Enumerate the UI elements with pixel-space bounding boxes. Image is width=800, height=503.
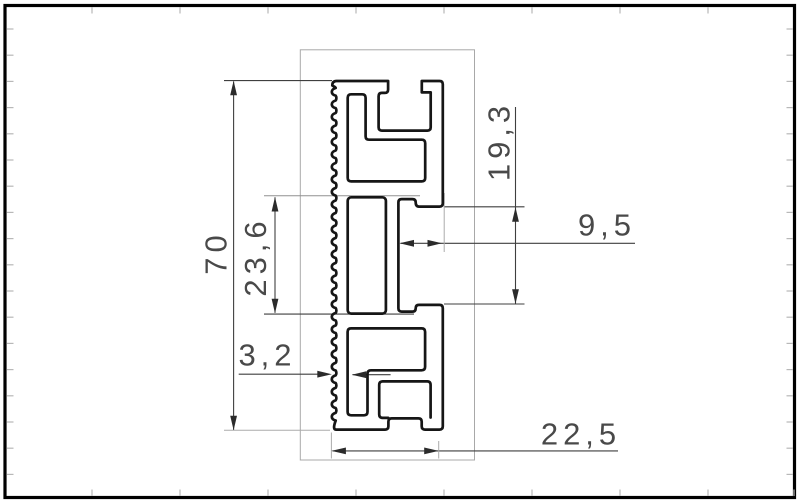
arrow 23,6 down (272, 299, 279, 314)
dim 22,5 extension lines (light) (330, 433, 332, 459)
svg-text:70: 70 (198, 230, 233, 274)
arrow 23,6 up (272, 197, 279, 212)
dim 22,5 line (333, 450, 619, 452)
arrow 70 up (230, 81, 237, 96)
arrow 22,5 left (331, 448, 346, 455)
dim 23,6 line (274, 197, 276, 312)
dim 3,2 right line (353, 374, 391, 376)
arrow 9,5 right (428, 240, 443, 247)
arrow 19,3 up (512, 207, 519, 222)
outer contour: cap right end, T-slot, hook, right wall, middle steps, bottom feet, wavy left (332, 81, 443, 430)
dim 70 extension line top (224, 80, 332, 82)
bottom window cavity (379, 381, 430, 418)
dim 9,5 line (401, 242, 636, 244)
viewport rectangle (300, 50, 474, 460)
svg-text:19,3: 19,3 (482, 101, 517, 181)
arrow 22,5 right (424, 448, 439, 455)
arrow 70 down (230, 416, 237, 431)
dim 3,2 left line (239, 373, 319, 375)
lower L-shaped cavity (348, 328, 426, 415)
arrow 3,2 left-pointing (352, 371, 367, 378)
dim 23,6 extension line top (264, 195, 420, 197)
dim 70 line (233, 82, 235, 431)
dim 23,6 extension line bottom (264, 313, 414, 315)
top L-shaped cavity (348, 94, 426, 181)
dim 19,3 line (515, 107, 517, 304)
svg-text:3,2: 3,2 (238, 337, 296, 372)
arrow 19,3 down (512, 289, 519, 304)
central cavity rectangle (348, 197, 386, 313)
dim 19,3 extension line top (444, 206, 525, 208)
svg-text:23,6: 23,6 (238, 216, 273, 296)
arrow 3,2 right-pointing (317, 371, 332, 378)
dim 9,5 extension line right (light) (443, 193, 445, 252)
svg-text:9,5: 9,5 (578, 208, 636, 243)
svg-text:22,5: 22,5 (541, 416, 621, 451)
dim 70 extension line bottom (light) (224, 429, 330, 431)
arrow 9,5 left (400, 240, 415, 247)
dim 19,3 extension line bottom (444, 303, 525, 305)
